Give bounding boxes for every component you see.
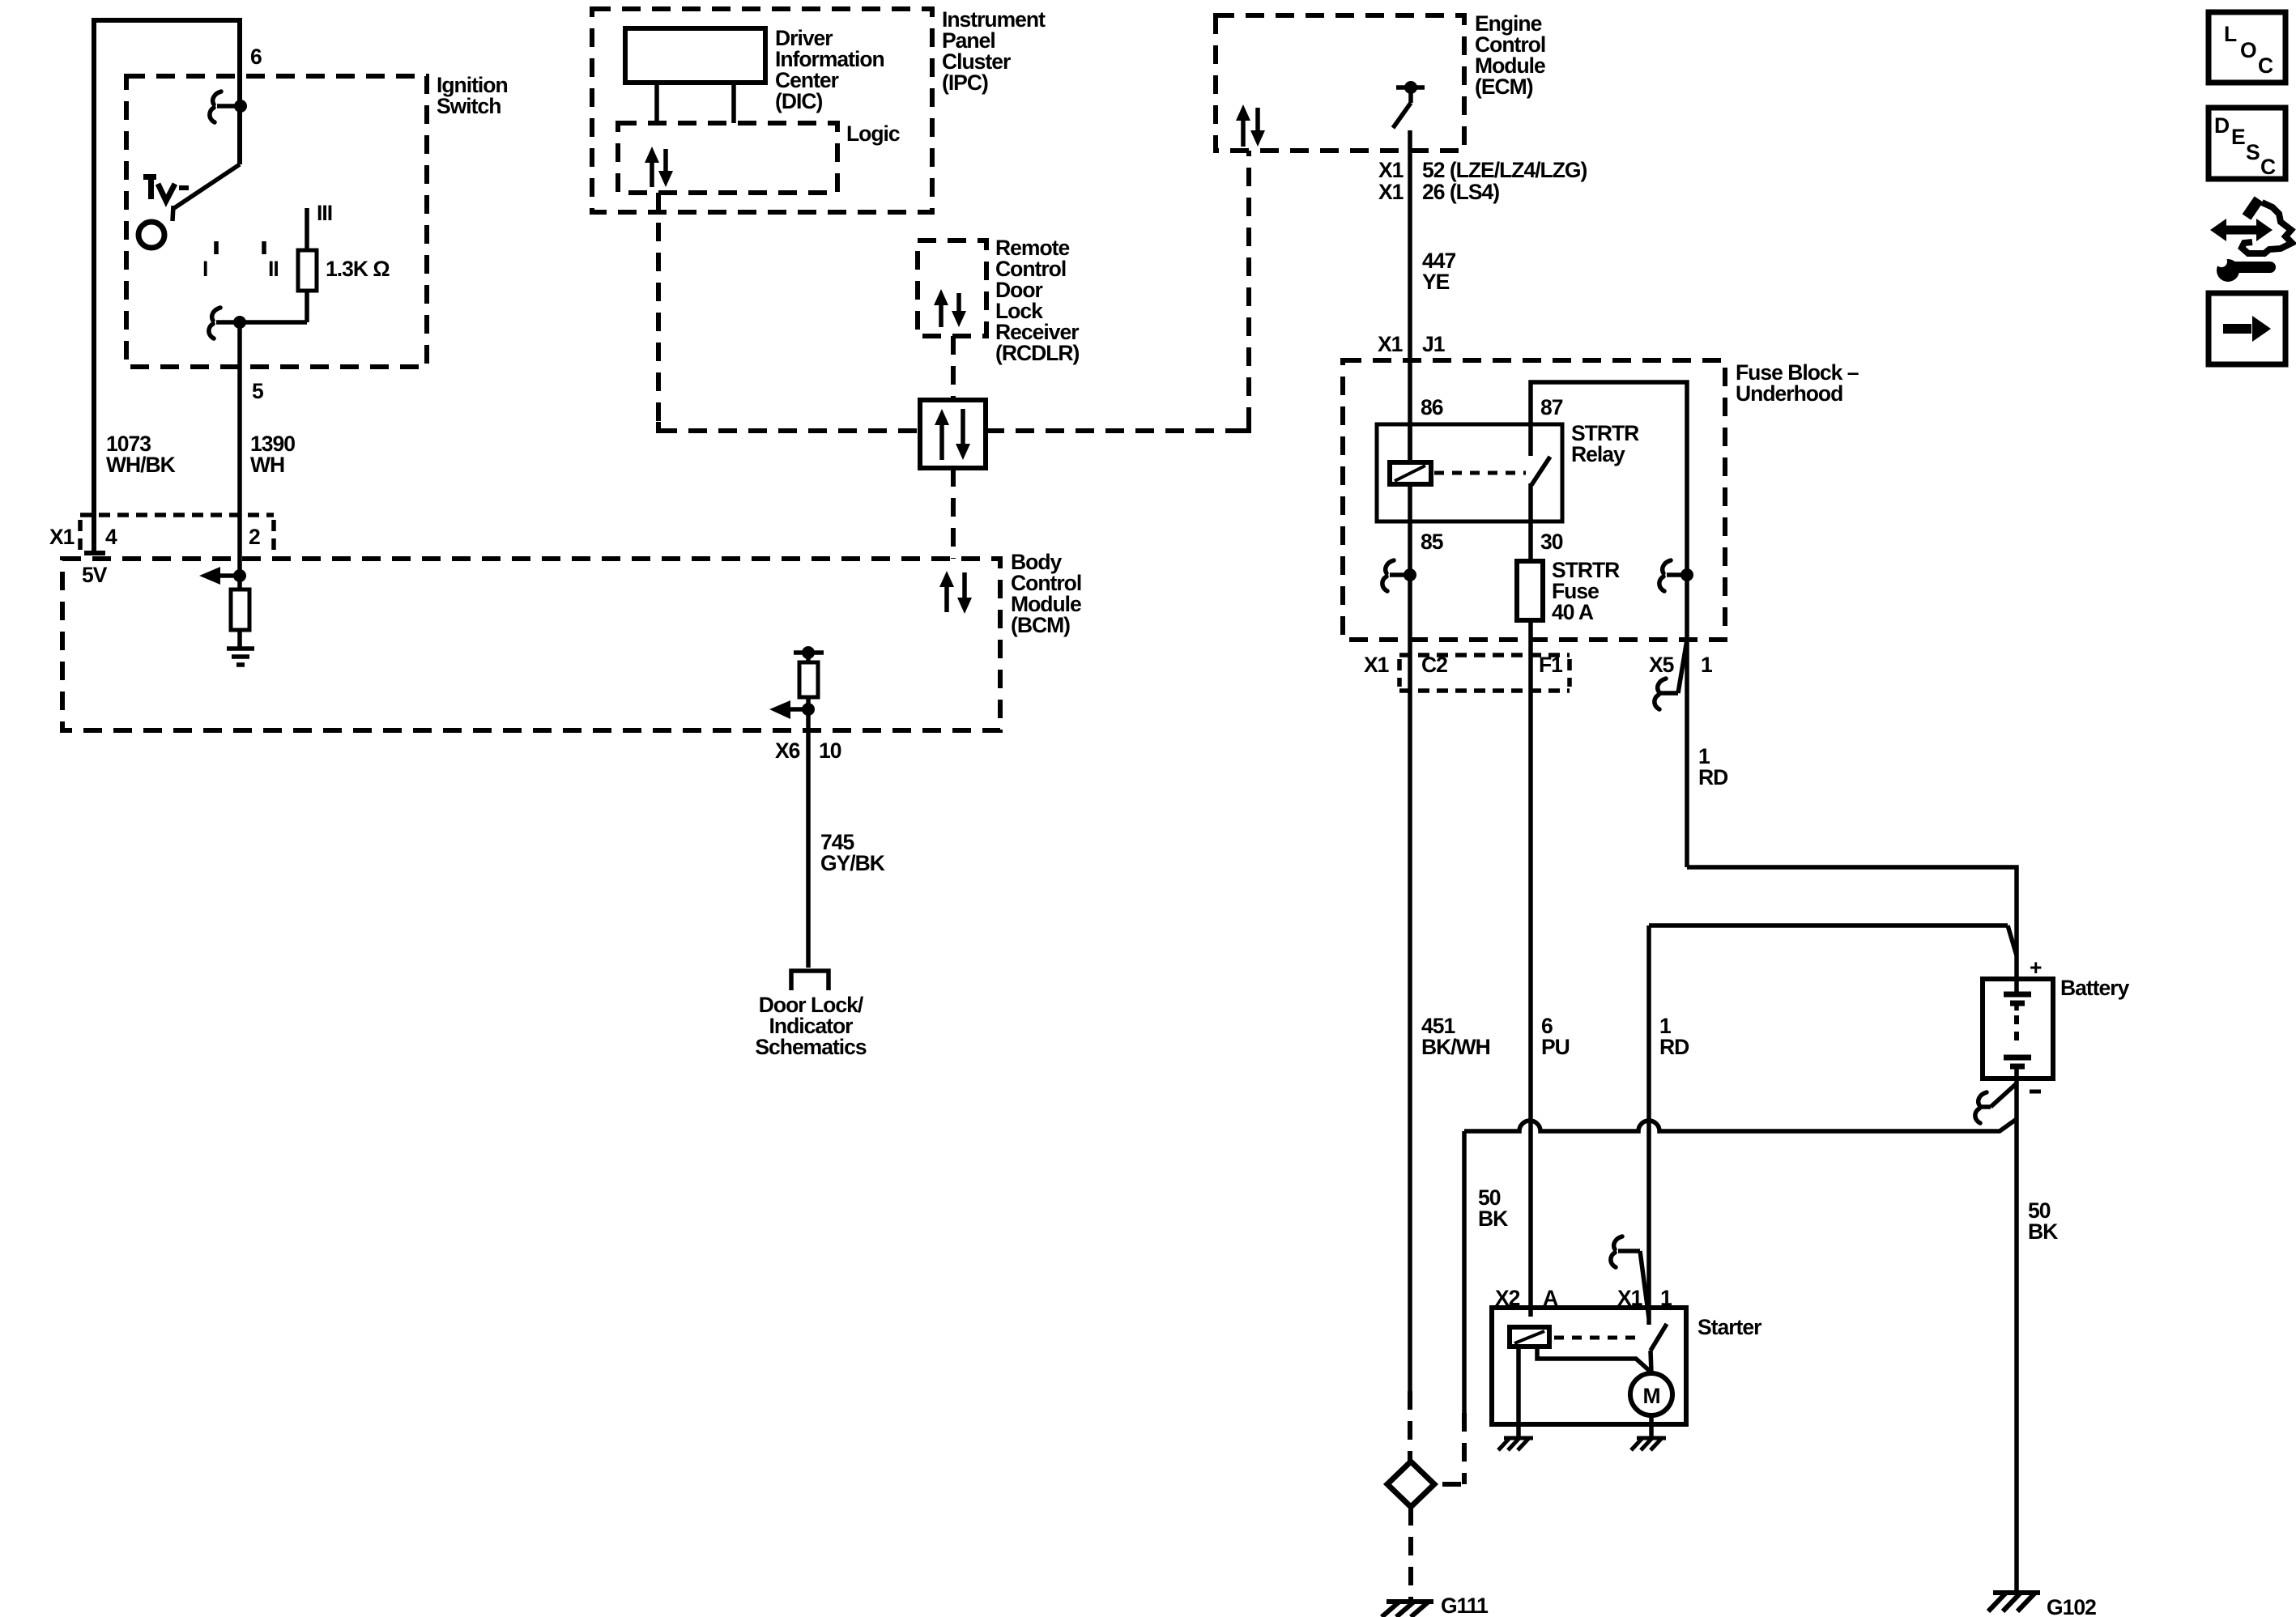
svg-text:F1: F1: [1539, 653, 1562, 677]
svg-text:30: 30: [1540, 530, 1563, 554]
svg-text:26 (LS4): 26 (LS4): [1422, 180, 1499, 204]
svg-text:X5: X5: [1649, 653, 1674, 677]
svg-text:86: 86: [1421, 395, 1443, 419]
svg-text:GY/BK: GY/BK: [820, 851, 885, 875]
svg-text:II: II: [268, 257, 279, 281]
svg-text:BK: BK: [1478, 1206, 1508, 1231]
svg-text:Relay: Relay: [1571, 442, 1625, 466]
svg-text:X6: X6: [775, 738, 800, 763]
svg-text:Underhood: Underhood: [1736, 381, 1842, 406]
svg-text:X1: X1: [1378, 158, 1404, 182]
svg-text:I: I: [202, 257, 207, 281]
svg-text:(BCM): (BCM): [1011, 613, 1070, 637]
svg-text:1: 1: [1701, 653, 1712, 677]
svg-text:C: C: [2258, 53, 2273, 78]
svg-text:2: 2: [249, 525, 260, 549]
svg-text:(ECM): (ECM): [1475, 74, 1533, 99]
svg-text:87: 87: [1540, 395, 1563, 419]
svg-text:X1: X1: [1364, 653, 1389, 677]
svg-text:5V: 5V: [82, 563, 108, 587]
svg-text:Battery: Battery: [2060, 976, 2130, 1000]
svg-text:L: L: [2224, 22, 2237, 46]
svg-text:III: III: [317, 201, 332, 225]
svg-text:(RCDLR): (RCDLR): [995, 341, 1080, 365]
svg-text:(IPC): (IPC): [942, 70, 988, 95]
svg-text:BK: BK: [2028, 1219, 2058, 1244]
svg-text:WH: WH: [250, 453, 284, 477]
svg-text:M: M: [1642, 1384, 1659, 1408]
svg-text:Logic: Logic: [846, 121, 900, 146]
svg-text:Switch: Switch: [437, 94, 501, 118]
svg-text:5: 5: [252, 379, 263, 403]
svg-text:Starter: Starter: [1698, 1315, 1761, 1339]
svg-text:+: +: [2030, 955, 2042, 980]
svg-text:G111: G111: [1441, 1594, 1488, 1617]
svg-text:C2: C2: [1421, 653, 1447, 677]
svg-text:PU: PU: [1541, 1035, 1570, 1059]
svg-text:WH/BK: WH/BK: [106, 453, 176, 477]
svg-text:X1: X1: [49, 525, 75, 549]
svg-text:1.3K Ω: 1.3K Ω: [326, 257, 390, 281]
svg-text:YE: YE: [1422, 270, 1450, 294]
svg-text:X1: X1: [1378, 180, 1404, 204]
svg-text:C: C: [2260, 155, 2276, 179]
svg-text:10: 10: [819, 738, 841, 763]
svg-text:4: 4: [105, 525, 117, 549]
svg-text:40 A: 40 A: [1552, 600, 1594, 624]
svg-text:BK/WH: BK/WH: [1421, 1035, 1490, 1059]
svg-text:S: S: [2246, 140, 2260, 164]
svg-text:(DIC): (DIC): [775, 89, 822, 113]
svg-text:85: 85: [1421, 530, 1443, 554]
svg-text:X1: X1: [1378, 332, 1403, 356]
svg-text:O: O: [2240, 38, 2256, 62]
svg-text:E: E: [2231, 125, 2245, 149]
svg-text:D: D: [2214, 113, 2230, 138]
svg-text:Schematics: Schematics: [755, 1035, 867, 1059]
svg-text:52 (LZE/LZ4/LZG): 52 (LZE/LZ4/LZG): [1422, 158, 1587, 182]
svg-text:RD: RD: [1659, 1035, 1689, 1059]
svg-text:J1: J1: [1422, 332, 1445, 356]
svg-text:6: 6: [250, 45, 262, 69]
svg-text:G102: G102: [2047, 1595, 2096, 1617]
svg-text:RD: RD: [1698, 765, 1728, 789]
